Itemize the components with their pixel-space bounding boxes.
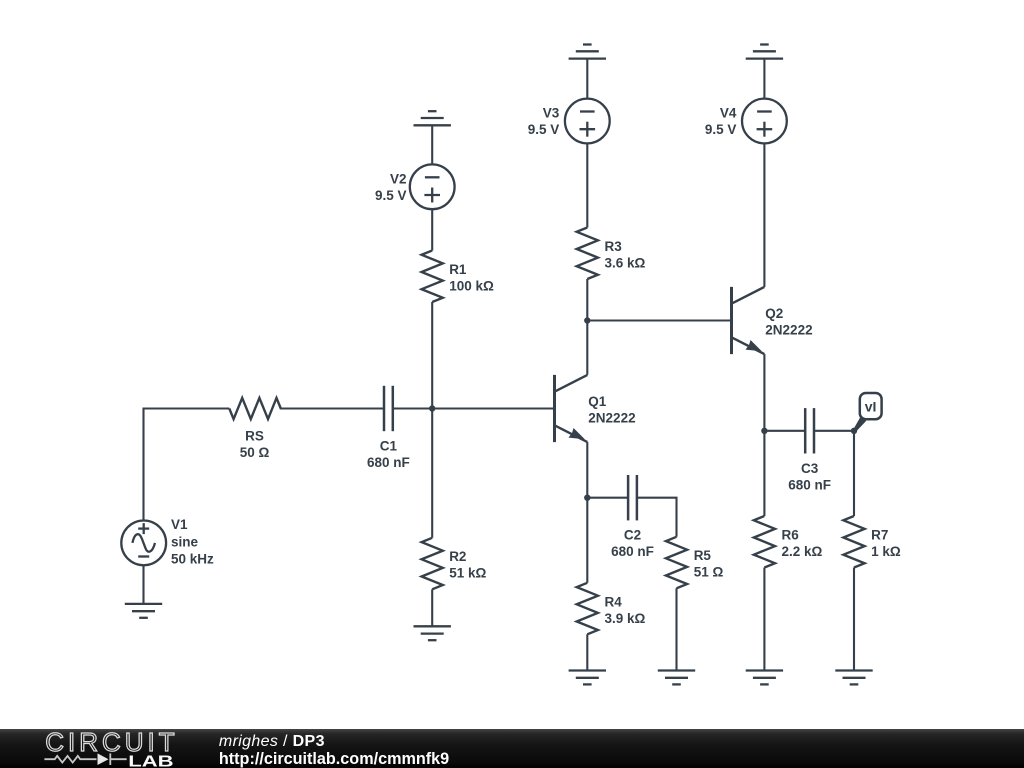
resistor R4 [577, 583, 598, 635]
svg-text:50 kHz: 50 kHz [171, 552, 214, 567]
wire C2 to R5 corner [637, 498, 677, 537]
node C Q1 emitter junction [584, 495, 590, 501]
svg-text:9.5 V: 9.5 V [528, 122, 560, 137]
svg-text:R4: R4 [605, 594, 623, 609]
resistor R3 [577, 228, 598, 280]
svg-text:LAB: LAB [128, 754, 173, 768]
svg-text:http://circuitlab.com/cmmnfk9: http://circuitlab.com/cmmnfk9 [219, 750, 449, 768]
wire Q2 base [587, 319, 731, 321]
capacitor C2 [628, 475, 637, 520]
svg-text:C1: C1 [380, 439, 398, 454]
svg-text:C2: C2 [624, 528, 641, 543]
wire V2 ground lead [431, 125, 433, 164]
wire output node to C3 [764, 430, 805, 432]
ground below R2 [414, 626, 451, 640]
wire V3 to R3 [586, 143, 588, 227]
node A bus junction [429, 405, 435, 411]
ground below R5 [658, 671, 695, 685]
wire C3 to vI node [814, 430, 854, 432]
capacitor C3 [805, 408, 814, 453]
ground above V2 [414, 111, 451, 125]
voltage source V4 [742, 99, 787, 144]
svg-text:9.5 V: 9.5 V [375, 188, 407, 203]
wire C1 to Q1 base [393, 407, 555, 409]
svg-text:680 nF: 680 nF [367, 455, 410, 470]
wire Q2 emitter to output node [763, 354, 765, 431]
svg-text:R5: R5 [694, 548, 712, 563]
node B Q2 base junction [584, 317, 590, 323]
svg-text:680 nF: 680 nF [788, 477, 831, 492]
svg-text:2.2 kΩ: 2.2 kΩ [782, 544, 823, 559]
wire Q1 emitter to node [586, 442, 588, 498]
svg-text:51 kΩ: 51 kΩ [449, 566, 486, 581]
footer bar [0, 729, 1024, 768]
capacitor C1 [384, 386, 393, 431]
node flag vI [853, 393, 881, 432]
svg-text:sine: sine [171, 534, 199, 549]
wire RS to C1 [280, 407, 384, 409]
svg-text:R7: R7 [871, 527, 888, 542]
node E output vI junction [851, 428, 857, 434]
ground above V3 [569, 45, 606, 59]
voltage source V3 [565, 99, 610, 144]
transistor Q1 [555, 375, 588, 442]
resistor R5 [666, 537, 687, 589]
svg-text:680 nF: 680 nF [611, 544, 654, 559]
voltage source V2 [410, 164, 455, 209]
voltage source V1 [121, 521, 166, 566]
svg-text:50 Ω: 50 Ω [240, 445, 270, 460]
wire R6 to ground [763, 568, 765, 671]
wire R4 to ground [586, 634, 588, 670]
svg-text:Q2: Q2 [765, 306, 783, 321]
ground below R6 [746, 671, 783, 685]
svg-text:V2: V2 [390, 171, 407, 186]
resistor R6 [754, 516, 775, 568]
svg-text:R6: R6 [782, 527, 800, 542]
wire V4 ground lead [763, 59, 765, 99]
svg-text:3.9 kΩ: 3.9 kΩ [605, 611, 646, 626]
wire R3 to Q1 collector [586, 279, 588, 375]
svg-text:RS: RS [245, 428, 264, 443]
wire V3 ground lead [586, 59, 588, 99]
svg-text:9.5 V: 9.5 V [705, 122, 737, 137]
svg-text:R2: R2 [449, 549, 466, 564]
svg-text:1 kΩ: 1 kΩ [871, 544, 901, 559]
resistor R2 [422, 538, 443, 590]
svg-text:V4: V4 [720, 106, 737, 121]
wire R7 to ground [853, 568, 855, 671]
svg-text:R3: R3 [605, 239, 623, 254]
node D Q2 emitter junction [761, 428, 767, 434]
svg-text:V1: V1 [171, 517, 188, 532]
svg-text:CIRCUIT: CIRCUIT [45, 727, 178, 757]
ground below R7 [835, 671, 872, 685]
wire V1 vertical [142, 408, 144, 521]
wire V1 to ground [142, 565, 144, 604]
wire main input bus [144, 407, 230, 409]
svg-text:100 kΩ: 100 kΩ [449, 278, 494, 293]
svg-text:mrighes / DP3: mrighes / DP3 [219, 733, 325, 750]
svg-text:R1: R1 [449, 262, 467, 277]
ground above V4 [746, 45, 783, 59]
svg-text:Q1: Q1 [588, 394, 607, 409]
resistor RS [229, 398, 280, 419]
footer logo resistor-diode symbol [44, 753, 126, 765]
wire V2 to R1 [431, 209, 433, 250]
wire output node to R6 [763, 431, 765, 516]
wire R1 to bus node [431, 302, 433, 538]
svg-text:51 Ω: 51 Ω [694, 565, 724, 580]
wire R2 to ground [431, 589, 433, 626]
wire node to C2 [587, 497, 628, 499]
wire R5 to ground [675, 588, 677, 670]
transistor Q2 [732, 287, 765, 354]
wire vI node to R7 [853, 431, 855, 516]
svg-text:V3: V3 [543, 106, 560, 121]
ground below R4 [569, 671, 606, 685]
svg-text:3.6 kΩ: 3.6 kΩ [605, 255, 646, 270]
ground below V1 [125, 604, 162, 618]
svg-text:vI: vI [865, 399, 877, 415]
svg-text:2N2222: 2N2222 [765, 323, 812, 338]
resistor R1 [422, 251, 443, 303]
svg-text:C3: C3 [801, 461, 819, 476]
wire node to R4 [586, 498, 588, 583]
svg-text:2N2222: 2N2222 [588, 411, 635, 426]
resistor R7 [843, 516, 864, 568]
wire V4 to Q2 collector [763, 143, 765, 287]
